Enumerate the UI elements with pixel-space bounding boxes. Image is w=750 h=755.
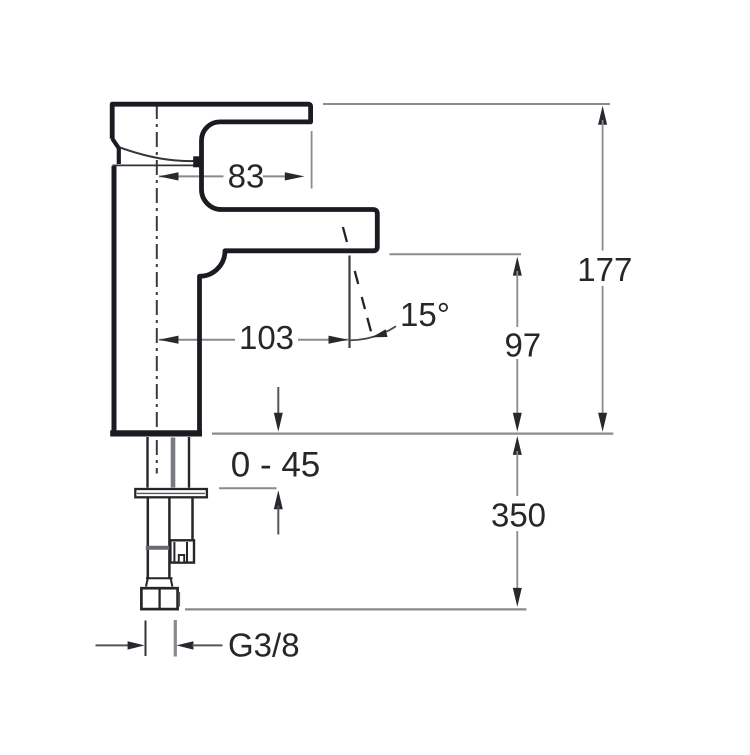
lever underside curve xyxy=(120,147,195,161)
side block inner line 2 xyxy=(186,542,188,562)
svg-text:97: 97 xyxy=(504,327,541,364)
junction blob xyxy=(193,156,202,167)
collar left edge xyxy=(146,579,148,587)
dim 0-45 down arrow xyxy=(274,413,283,432)
dim 0-45 lower line xyxy=(277,506,279,535)
lever notch left edge xyxy=(112,139,119,165)
tube below flange middle wall xyxy=(168,498,171,579)
G3/8 left arrow line xyxy=(96,644,129,646)
hose end line xyxy=(185,608,526,610)
G3/8 left arrow xyxy=(128,641,145,649)
dim 83 extension line xyxy=(311,131,313,189)
spout outlet extension line xyxy=(390,253,522,255)
shank right wall xyxy=(188,437,190,488)
svg-text:15°: 15° xyxy=(400,296,450,333)
G3/8 right tick xyxy=(174,620,177,657)
svg-text:350: 350 xyxy=(491,497,546,534)
dim 177 bottom arrow xyxy=(598,413,607,432)
svg-text:103: 103 xyxy=(239,319,294,356)
G3/8 left tick xyxy=(145,621,147,657)
dim 103 line xyxy=(159,339,348,341)
dim 350 top arrow xyxy=(513,436,522,455)
faucet body outline xyxy=(112,104,377,431)
collar top edge xyxy=(146,577,173,579)
body left edge xyxy=(112,166,117,431)
G3/8 right arrow xyxy=(176,641,193,649)
flange seam line xyxy=(137,492,205,494)
15 degree arc xyxy=(350,326,396,340)
hex nut xyxy=(141,588,177,609)
horseshoe flange xyxy=(135,489,207,497)
side block inner line 1 xyxy=(173,542,175,562)
15 degree arc arrow xyxy=(372,329,388,337)
dim 97 top arrow xyxy=(513,257,522,276)
dim 83 left arrow xyxy=(159,172,179,180)
side block notch xyxy=(179,555,184,563)
dim 350 bottom arrow xyxy=(513,588,522,607)
base bottom edge xyxy=(110,430,202,436)
dim 0-45 up arrow xyxy=(274,490,283,509)
collar right edge xyxy=(171,579,173,587)
hex nut right band xyxy=(178,592,180,607)
tube below flange left wall xyxy=(147,498,150,579)
body top joint line xyxy=(113,164,194,166)
15 degree dashed stream line xyxy=(343,227,371,332)
svg-text:177: 177 xyxy=(577,251,632,288)
tube step band xyxy=(146,546,171,550)
dim 103 left arrow xyxy=(159,336,179,344)
dim 97 bottom arrow xyxy=(513,413,522,432)
shank left wall xyxy=(146,437,148,488)
svg-text:83: 83 xyxy=(228,157,265,194)
side block xyxy=(170,540,194,562)
dim 83 right arrow xyxy=(285,172,305,180)
dim 350 line xyxy=(516,451,518,591)
dim 177 line xyxy=(602,120,604,417)
dim 97 line xyxy=(516,271,518,417)
dim 83 line xyxy=(159,175,289,177)
center axis line xyxy=(156,104,158,474)
dim 0-45 upper line xyxy=(277,387,279,416)
tube below flange right wall xyxy=(191,498,194,541)
outlet vertical reference line xyxy=(348,256,350,349)
G3/8 right arrow line xyxy=(192,644,223,646)
svg-text:0 - 45: 0 - 45 xyxy=(231,446,321,485)
dim 103 right arrow xyxy=(329,336,349,344)
dim 177 top arrow xyxy=(598,106,607,125)
shank threaded rod xyxy=(171,438,176,488)
flange level extension line xyxy=(219,487,277,489)
top extension line xyxy=(323,103,610,105)
svg-text:G3/8: G3/8 xyxy=(228,626,300,663)
hex nut facet line xyxy=(158,589,160,609)
mounting plane line xyxy=(212,432,613,434)
